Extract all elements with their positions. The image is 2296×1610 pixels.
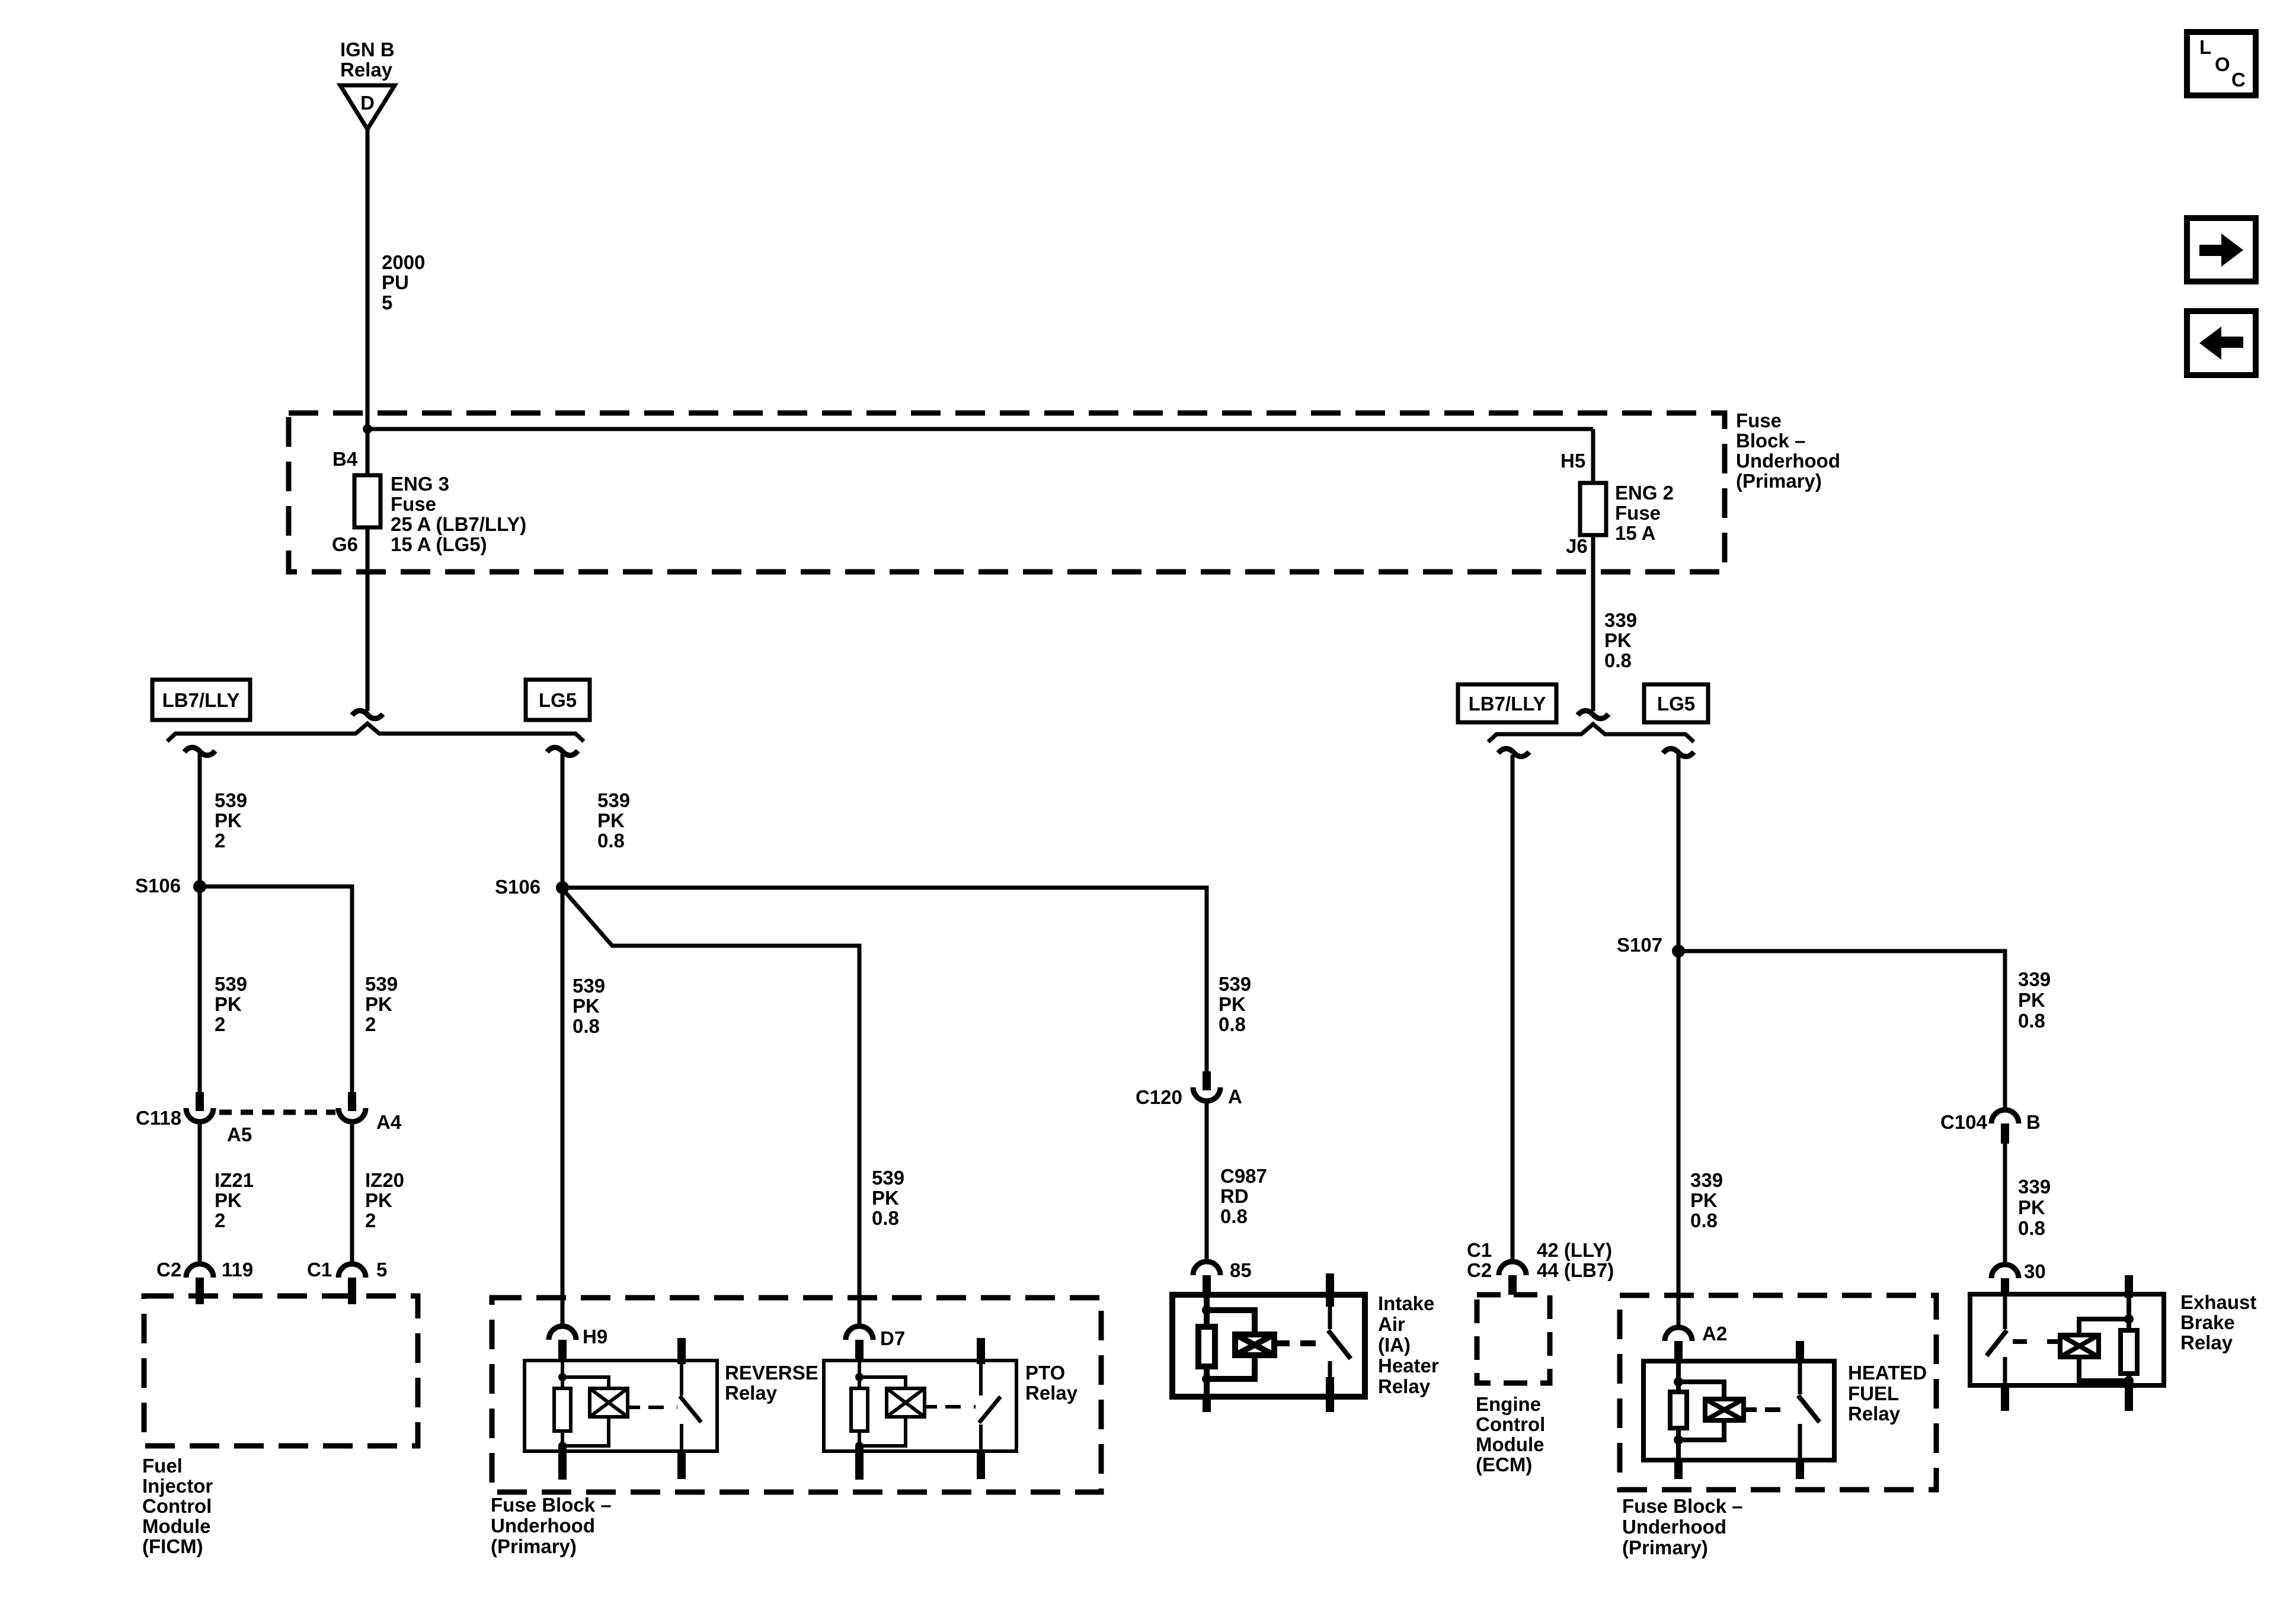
svg-text:Block –: Block – [1736,430,1805,452]
connector D7 [846,1326,873,1340]
svg-text:Exhaust: Exhaust [2180,1291,2256,1313]
connector H9 [549,1326,576,1340]
svg-text:Underhood: Underhood [1622,1516,1726,1538]
Exhaust Brake Relay box [1970,1294,2164,1385]
wire break symbol below right brace left end [1498,748,1529,756]
connector C2 pin 119 [186,1264,213,1278]
svg-text:(FICM): (FICM) [142,1535,203,1557]
svg-text:A2: A2 [1702,1323,1727,1345]
svg-text:G6: G6 [332,533,358,555]
junction node at B4 feed [363,424,372,434]
svg-text:5: 5 [382,292,392,313]
svg-text:Fuse: Fuse [1736,409,1782,431]
svg-text:D: D [360,92,375,114]
REVERSE relay switch [677,1338,686,1364]
svg-text:Control: Control [1476,1413,1545,1435]
svg-text:PK: PK [365,993,392,1015]
svg-text:O: O [2215,53,2230,75]
svg-text:LB7/LLY: LB7/LLY [162,689,240,711]
wire S106 diagonal branch to D7 [562,889,859,1328]
HEATED FUEL Relay box [1643,1361,1834,1460]
svg-text:539: 539 [215,973,247,995]
wire from triangle D to fuse block [366,128,370,430]
connector ECM pins C1/C2 [1499,1262,1526,1275]
svg-text:Relay: Relay [1378,1375,1431,1397]
svg-text:RD: RD [1220,1185,1249,1207]
wire A4 to C1 [350,1124,354,1263]
svg-text:2: 2 [215,830,225,852]
svg-text:Relay: Relay [1025,1382,1078,1404]
HEATED FUEL relay switch [1796,1341,1804,1363]
option box LG5 left [526,680,590,720]
svg-text:B: B [2026,1111,2041,1133]
svg-text:(ECM): (ECM) [1476,1454,1532,1475]
svg-text:0.8: 0.8 [1220,1205,1248,1227]
svg-text:PK: PK [215,1189,242,1211]
svg-text:25 A (LB7/LLY): 25 A (LB7/LLY) [391,513,526,535]
connector C104 pin B [1991,1110,2019,1124]
svg-text:2: 2 [215,1209,225,1231]
wire LB7/LLY right branch down to ECM [1511,755,1515,1263]
svg-text:339: 339 [1690,1169,1723,1191]
engine option brace right (LB7/LLY vs LG5) [1488,724,1694,742]
svg-text:Relay: Relay [1848,1403,1901,1425]
wire C104 to 30 [2003,1142,2007,1266]
connector C118 pin A4 [348,1092,356,1111]
option box LB7/LLY left [152,680,250,720]
wire S106 to C120 [562,888,1207,1071]
svg-text:A4: A4 [376,1111,402,1133]
svg-text:S106: S106 [135,875,181,897]
svg-text:119: 119 [222,1259,253,1281]
svg-text:A: A [1228,1086,1242,1108]
IA relay coil circuit [1204,1295,1210,1327]
splice S106 (LG5) [556,881,569,894]
IA relay actuator dashed [1274,1340,1290,1346]
svg-text:H5: H5 [1560,450,1585,472]
wire C120 to 85 [1205,1103,1209,1263]
HEATED FUEL relay coil- pin [1674,1460,1683,1479]
svg-text:S107: S107 [1617,934,1662,956]
Fuse Block - Underhood (Primary) dashed box top [289,413,1725,572]
svg-text:IZ21: IZ21 [215,1169,254,1191]
svg-text:PK: PK [872,1187,899,1209]
Exhaust Brake relay coil- pin [2125,1385,2133,1411]
wire LG5 right branch down to A2 [1677,755,1681,1328]
Exhaust Brake relay actuator dashed [2047,1339,2060,1344]
connector 30 [1991,1265,2019,1278]
arrow button right [2187,218,2256,281]
svg-text:(Primary): (Primary) [1622,1537,1708,1558]
bus wire from B4 junction to H5 [367,427,1593,431]
svg-text:539: 539 [573,975,605,997]
svg-text:Relay: Relay [725,1382,778,1404]
svg-text:0.8: 0.8 [872,1207,899,1229]
svg-text:0.8: 0.8 [1690,1209,1718,1231]
svg-text:LG5: LG5 [539,689,577,711]
arrow button left [2187,311,2256,375]
svg-text:15 A (LG5): 15 A (LG5) [391,533,487,555]
svg-text:C2: C2 [156,1259,181,1281]
svg-text:85: 85 [1230,1259,1252,1281]
svg-text:Injector: Injector [142,1475,213,1497]
svg-text:Relay: Relay [2180,1331,2233,1353]
HEATED FUEL relay actuator dashed [1744,1407,1757,1412]
svg-text:LB7/LLY: LB7/LLY [1469,693,1546,715]
svg-text:539: 539 [365,973,398,995]
svg-text:539: 539 [597,789,630,811]
svg-text:IGN B: IGN B [340,39,395,60]
svg-text:539: 539 [872,1167,904,1189]
fuse ENG 3 [366,429,370,475]
svg-text:D7: D7 [880,1327,905,1349]
option box LB7/LLY right [1458,684,1556,722]
svg-text:339: 339 [2018,968,2051,990]
svg-text:C104: C104 [1940,1111,1988,1133]
svg-text:Control: Control [142,1495,212,1517]
REVERSE Relay box [525,1361,717,1451]
svg-text:0.8: 0.8 [1604,649,1632,671]
wire break symbol above right brace [1578,710,1609,718]
Exhaust Brake relay coil circuit [2125,1275,2133,1298]
svg-text:IZ20: IZ20 [365,1169,404,1191]
svg-text:C987: C987 [1220,1165,1267,1187]
svg-text:(Primary): (Primary) [491,1535,577,1557]
connector 85 [1193,1262,1220,1275]
svg-text:2: 2 [215,1013,225,1035]
PTO relay switch [977,1338,985,1364]
svg-text:539: 539 [215,789,247,811]
connector C1 pin 5 [338,1264,366,1278]
svg-text:Brake: Brake [2180,1311,2235,1333]
svg-text:Relay: Relay [340,59,393,81]
svg-text:Air: Air [1378,1313,1405,1335]
svg-text:PK: PK [2018,989,2045,1011]
PTO relay actuator dashed [925,1405,937,1409]
wire break symbol below left brace right end [547,747,578,755]
PTO relay coil- pin [855,1446,864,1480]
connector C118 pin A5 [196,1092,204,1111]
svg-text:PK: PK [1604,629,1632,651]
svg-text:A5: A5 [227,1124,252,1145]
svg-text:2: 2 [365,1209,376,1231]
LOC legend box [2187,32,2256,95]
svg-text:0.8: 0.8 [597,830,625,852]
svg-text:B4: B4 [332,448,358,470]
wire LB7/LLY branch down to S106 [198,754,202,1092]
svg-text:Fuel: Fuel [142,1455,183,1477]
IA relay switch [1326,1273,1334,1307]
svg-text:C118: C118 [136,1107,181,1129]
svg-text:(Primary): (Primary) [1736,470,1822,492]
svg-text:339: 339 [2018,1176,2051,1198]
svg-text:ENG 3: ENG 3 [391,473,449,495]
svg-text:Underhood: Underhood [1736,450,1840,472]
svg-text:C1: C1 [307,1259,332,1281]
svg-text:PK: PK [597,809,625,831]
svg-text:539: 539 [1219,973,1251,995]
svg-text:PK: PK [215,993,242,1015]
svg-text:PU: PU [382,271,409,293]
IA relay coil- pin [1203,1397,1211,1412]
svg-text:Heater: Heater [1378,1355,1439,1377]
svg-text:Underhood: Underhood [491,1515,595,1537]
fuse ENG 2 [1591,429,1595,483]
wire break symbol below right brace right end [1663,748,1694,756]
svg-text:L: L [2199,36,2211,58]
Fuse Block - Underhood (Primary) dashed box bottom left [492,1298,1101,1492]
dashed connector link A5 to A4 [219,1110,335,1115]
connector A2 [1665,1327,1692,1341]
REVERSE relay coil- pin [558,1446,567,1480]
svg-text:PK: PK [215,809,242,831]
svg-text:C: C [2231,69,2246,91]
Exhaust Brake relay switch [2003,1296,2007,1329]
PTO Relay box [824,1361,1016,1451]
svg-text:5: 5 [376,1259,387,1281]
wire A5 to C2 [198,1124,202,1263]
svg-text:Module: Module [1476,1433,1544,1455]
off-page triangle D (IGN B Relay feed) [340,85,395,129]
svg-text:PTO: PTO [1025,1362,1065,1384]
svg-text:REVERSE: REVERSE [725,1362,818,1384]
svg-text:PK: PK [573,995,600,1017]
svg-text:S106: S106 [495,876,541,898]
svg-text:0.8: 0.8 [1219,1013,1246,1035]
connector C120 pin A [1203,1071,1211,1090]
svg-text:H9: H9 [583,1326,607,1347]
Fuel Injector Control Module (FICM) dashed box [144,1296,418,1446]
svg-text:PK: PK [1219,993,1246,1015]
svg-text:Intake: Intake [1378,1292,1434,1314]
Engine Control Module (ECM) dashed box [1477,1295,1550,1383]
svg-text:FUEL: FUEL [1848,1382,1899,1404]
Intake Air (IA) Heater Relay box [1172,1295,1365,1397]
svg-text:2: 2 [365,1013,376,1035]
wire break symbol below left brace left end [184,747,215,755]
svg-text:Engine: Engine [1476,1393,1541,1415]
svg-text:0.8: 0.8 [2018,1010,2045,1032]
svg-text:(IA): (IA) [1378,1334,1411,1356]
splice S106 (LB7/LLY) [193,880,206,893]
wire LG5 branch down to S106 [561,754,565,1328]
svg-text:ENG 2: ENG 2 [1615,482,1674,504]
wire break symbol above left brace [352,710,383,718]
HEATED FUEL relay coil circuit [1676,1361,1681,1392]
Fuse Block - Underhood (Primary) dashed box bottom right [1620,1295,1936,1490]
svg-text:Fuse Block –: Fuse Block – [1622,1495,1743,1517]
svg-text:PK: PK [1690,1189,1718,1211]
option box LG5 right [1644,684,1708,722]
svg-text:C120: C120 [1136,1086,1182,1108]
svg-text:Fuse: Fuse [1615,502,1661,524]
svg-text:15 A: 15 A [1615,522,1655,544]
wire S107 to C104 [1678,951,2005,1110]
REVERSE relay actuator dashed [628,1406,640,1409]
svg-text:Module: Module [142,1515,210,1537]
svg-text:0.8: 0.8 [2018,1217,2045,1239]
svg-text:0.8: 0.8 [573,1015,600,1037]
svg-text:Fuse Block –: Fuse Block – [491,1494,612,1516]
svg-text:30: 30 [2024,1260,2046,1282]
engine option brace left (LB7/LLY vs LG5) [167,724,584,741]
svg-text:44 (LB7): 44 (LB7) [1537,1259,1614,1281]
svg-text:C2: C2 [1467,1259,1492,1281]
svg-text:C1: C1 [1467,1239,1492,1261]
splice S107 [1672,945,1685,958]
REVERSE relay coil circuit [561,1361,564,1388]
svg-text:Fuse: Fuse [391,493,436,515]
svg-text:2000: 2000 [382,251,425,273]
wire S106 to A4 branch [200,886,352,1092]
svg-text:339: 339 [1604,609,1637,631]
svg-text:HEATED: HEATED [1848,1362,1927,1384]
PTO relay coil circuit [858,1361,861,1388]
svg-text:J6: J6 [1566,535,1588,557]
svg-text:PK: PK [2018,1196,2045,1218]
svg-text:42 (LLY): 42 (LLY) [1537,1239,1612,1261]
svg-text:LG5: LG5 [1657,693,1695,715]
svg-text:PK: PK [365,1189,392,1211]
